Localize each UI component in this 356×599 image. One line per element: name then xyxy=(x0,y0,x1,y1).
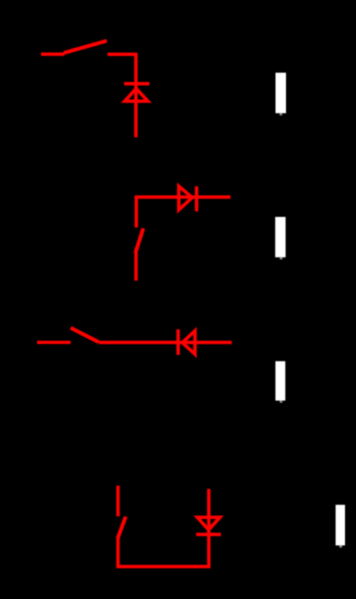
wire right of D2 xyxy=(198,195,231,198)
wire below D1 (passes through D1) xyxy=(134,84,137,138)
white bar 4 xyxy=(336,505,345,546)
wire from S3 through D3 xyxy=(99,341,197,344)
white bar 1 tick xyxy=(280,113,283,115)
diode D1 triangle xyxy=(125,89,148,102)
switch S3 blade xyxy=(71,328,99,342)
switch S1 left stub xyxy=(41,53,64,56)
diode D3 triangle xyxy=(182,331,195,355)
diode D3 cathode bar xyxy=(176,329,179,355)
white bar 3 xyxy=(275,361,285,400)
diode D2 cathode bar xyxy=(195,186,198,211)
wire from S1 to D1 (corner) xyxy=(108,54,136,83)
diode D4 triangle xyxy=(197,517,220,530)
wire below S2 xyxy=(134,252,137,281)
switch S4 blade xyxy=(118,517,126,539)
white bar 4 tick xyxy=(339,545,342,547)
switch S4 upper wire xyxy=(116,486,119,517)
white bar 3 tick xyxy=(280,401,283,403)
switch S2 blade xyxy=(136,228,144,252)
diode D1 cathode bar xyxy=(124,82,149,85)
white bar 2 tick xyxy=(280,257,283,259)
switch S1 blade xyxy=(64,41,107,53)
white bar 1 xyxy=(276,73,287,114)
wire node to D2 (corner, passes through D2) xyxy=(136,197,196,227)
white bar 2 xyxy=(275,217,285,257)
bottom loop wire (left down, bottom, right up) xyxy=(118,489,209,567)
switch S3 left stub xyxy=(37,341,71,344)
wire right of D3 xyxy=(197,341,232,344)
diode D4 cathode bar xyxy=(196,533,221,536)
diode D2 triangle xyxy=(179,186,192,210)
